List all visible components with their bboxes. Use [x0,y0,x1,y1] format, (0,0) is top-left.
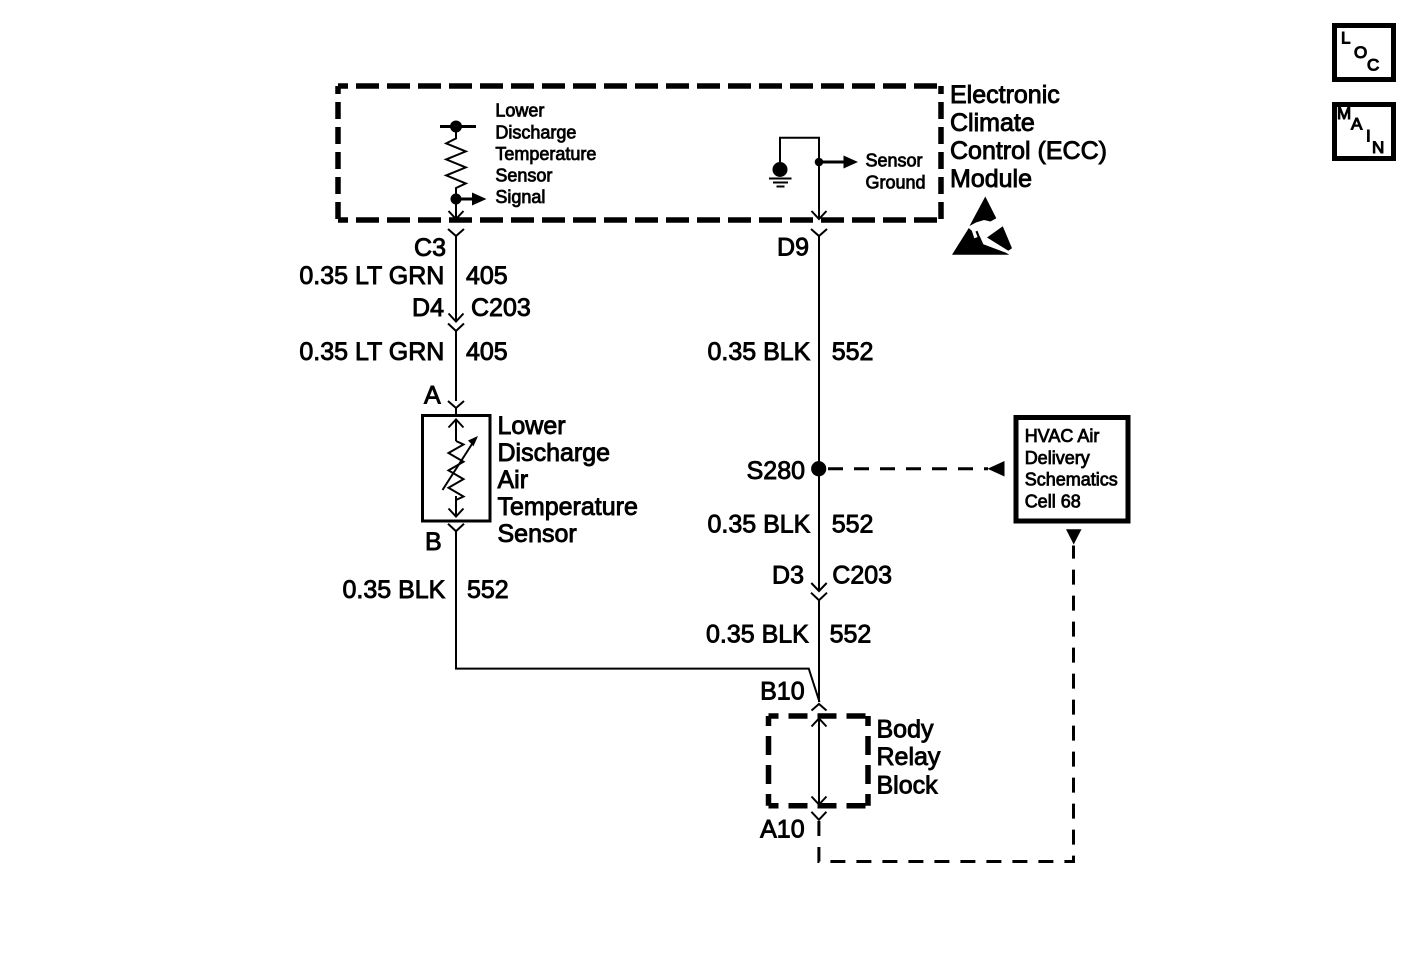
svg-text:Sensor: Sensor [866,151,923,171]
svg-text:HVAC Air: HVAC Air [1025,426,1100,446]
svg-text:0.35 BLK: 0.35 BLK [708,338,811,366]
svg-text:B: B [425,528,442,556]
svg-text:N: N [1372,138,1384,157]
svg-text:B10: B10 [760,678,804,706]
svg-text:0.35 LT GRN: 0.35 LT GRN [299,338,444,366]
svg-text:C3: C3 [414,234,446,262]
svg-text:A10: A10 [760,815,804,843]
svg-text:405: 405 [466,338,508,366]
svg-text:Signal: Signal [495,187,545,207]
svg-text:Block: Block [877,771,939,799]
svg-text:552: 552 [832,511,874,539]
svg-text:Discharge: Discharge [495,122,576,142]
svg-text:0.35 LT GRN: 0.35 LT GRN [299,262,444,290]
svg-text:Lower: Lower [495,101,544,121]
svg-text:C: C [1367,56,1379,75]
svg-text:Discharge: Discharge [498,439,611,467]
svg-text:Temperature: Temperature [498,493,638,521]
svg-text:0.35 BLK: 0.35 BLK [706,621,809,649]
svg-text:0.35 BLK: 0.35 BLK [708,511,811,539]
svg-text:Climate: Climate [950,109,1035,137]
svg-text:D4: D4 [412,294,444,322]
svg-text:Module: Module [950,165,1032,193]
svg-text:Cell 68: Cell 68 [1025,491,1081,511]
svg-text:Control (ECC): Control (ECC) [950,137,1107,165]
svg-text:I: I [1366,127,1371,146]
svg-text:D9: D9 [777,234,809,262]
svg-text:0.35 BLK: 0.35 BLK [343,576,446,604]
svg-text:Schematics: Schematics [1025,470,1118,490]
svg-text:552: 552 [832,338,874,366]
svg-text:Electronic: Electronic [950,81,1060,109]
svg-text:Sensor: Sensor [495,166,552,186]
svg-text:A: A [424,382,441,410]
svg-text:A: A [1351,115,1363,134]
svg-text:Relay: Relay [877,743,941,771]
svg-text:D3: D3 [772,562,804,590]
svg-text:Lower: Lower [498,412,566,440]
svg-text:405: 405 [466,262,508,290]
svg-text:552: 552 [830,621,872,649]
svg-text:Sensor: Sensor [498,520,577,548]
svg-text:Ground: Ground [866,172,926,192]
svg-text:Air: Air [498,466,529,494]
svg-text:S280: S280 [747,457,805,485]
svg-text:C203: C203 [832,562,892,590]
svg-text:L: L [1341,29,1350,48]
svg-text:O: O [1354,43,1367,62]
svg-text:M: M [1337,104,1351,123]
svg-text:Delivery: Delivery [1025,448,1090,468]
svg-text:C203: C203 [471,294,531,322]
svg-text:552: 552 [467,576,509,604]
svg-text:Body: Body [877,715,934,743]
svg-text:Temperature: Temperature [495,144,596,164]
